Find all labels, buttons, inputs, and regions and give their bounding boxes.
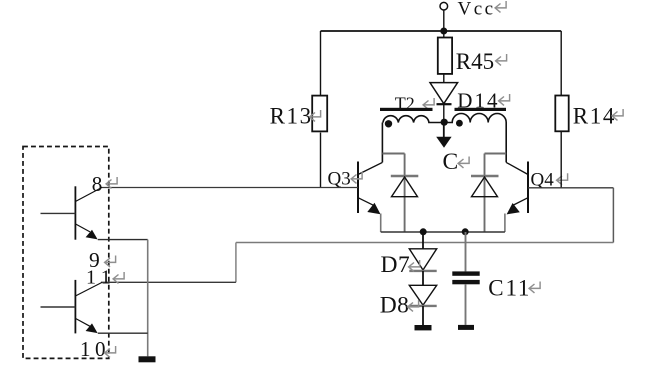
dashed enclosure box (driver IC outline) (23, 147, 109, 359)
svg-text:10: 10 (80, 337, 110, 361)
transformer T2 core bar left (380, 108, 433, 111)
paragraph mark after C (458, 157, 469, 168)
wire top rail to R13 (320, 31, 322, 96)
svg-text:11: 11 (86, 266, 116, 288)
paragraph mark after 10 (105, 346, 116, 357)
wire D7 cathode to D8 anode (422, 271, 424, 285)
junction dot bridge rail at D7 (420, 228, 427, 235)
transistor Q3 emitter arrowhead (367, 203, 380, 214)
diode D14 triangle (430, 83, 458, 104)
wire through Q3 clamp diode to bridge rail (404, 154, 406, 233)
transistor Q4 emitter arrowhead (507, 203, 520, 214)
wire bridge rail to C11 top plate (465, 232, 467, 271)
paragraph mark after D7 (409, 260, 420, 271)
paragraph mark after Q4 (557, 173, 568, 184)
wire R14 to Q4 base net (560, 132, 562, 188)
wire node 11 return horizontal (236, 242, 614, 244)
diode D7 cathode bar (409, 270, 436, 272)
clamp diode of Q3 cathode bar (391, 175, 419, 177)
clamp diode of Q4 cathode bar (471, 175, 499, 177)
wire Q4 base to right drop (528, 187, 613, 189)
wire top rail to R14 (560, 31, 562, 96)
paragraph mark after D8 (408, 300, 419, 311)
lower driver transistor emitter arrowhead (86, 323, 98, 333)
wire node 11 return riser (235, 243, 237, 283)
svg-text:Vcc: Vcc (458, 0, 496, 19)
diode D8 triangle (409, 285, 436, 305)
transistor Q3 base bar (357, 162, 359, 214)
transformer T2 phase dot right (456, 120, 463, 127)
svg-text:C: C (443, 149, 459, 175)
ground bar under D8 (415, 325, 432, 330)
svg-text:R13: R13 (270, 103, 313, 128)
upper driver transistor base stub (41, 212, 76, 214)
svg-text:C11: C11 (488, 275, 531, 300)
wire D8 cathode to ground (422, 306, 424, 325)
transformer T2 phase dot left (385, 120, 392, 127)
diode D14 cathode bar (437, 103, 452, 105)
wire D14 cathode to transformer center tap (443, 104, 445, 122)
resistor R14 body (555, 96, 568, 132)
lower driver transistor emitter lead (75, 318, 90, 326)
ground bar under mid drop (139, 356, 156, 362)
transformer T2 left winding with lead down to Q3 collector (382, 116, 443, 163)
svg-text:R14: R14 (573, 103, 616, 128)
wire bridge bottom rail (381, 231, 505, 233)
svg-text:R45: R45 (456, 49, 494, 74)
wire R13 to Q3 base net (320, 133, 322, 188)
svg-text:8: 8 (92, 172, 103, 196)
transistor Q4 collector lead (506, 162, 528, 174)
junction dot Vcc on top rail (440, 28, 447, 35)
capacitor C11 bottom plate (452, 280, 479, 284)
transformer T2 right winding with lead down to Q4 collector (444, 114, 506, 163)
transistor Q3 collector lead (358, 162, 382, 174)
wire node 8 to Q3 base (101, 187, 358, 189)
paragraph mark after Q3 (351, 172, 362, 183)
wire Q3 collector to clamp diode top (382, 153, 404, 155)
wire upper emitter to mid drop (98, 239, 148, 241)
wire lower emitter to mid drop (98, 332, 148, 334)
wire Q4 collector to clamp diode top (485, 153, 507, 155)
paragraph mark after D14 (499, 94, 510, 105)
svg-text:Q3: Q3 (328, 169, 351, 190)
transistor Q3 emitter lead (358, 198, 374, 206)
wire top rail to R45 (443, 31, 445, 38)
paragraph mark after R14 (612, 109, 623, 120)
junction dot bridge rail at C11 (462, 228, 469, 235)
wire node 11 to lower transistor collector (101, 281, 236, 283)
paragraph mark after C11 (529, 282, 540, 293)
wire Q3 emitter to bridge rail (380, 214, 382, 233)
power terminal Vcc (open circle) (440, 2, 448, 10)
upper driver transistor emitter lead (75, 224, 90, 232)
paragraph mark after T2 (423, 98, 434, 109)
transformer T2 core bar right (455, 108, 507, 111)
capacitor C11 top plate (452, 271, 479, 275)
arrow center tap to node C (443, 122, 445, 138)
wire bridge rail to D7 anode (422, 232, 424, 249)
svg-text:D7: D7 (381, 252, 411, 278)
wire Vcc terminal to top rail (443, 10, 445, 31)
wire mid drop to ground (147, 240, 149, 357)
paragraph mark after 11 (113, 272, 124, 283)
wire through Q4 clamp diode to bridge rail (484, 154, 486, 233)
svg-text:D8: D8 (380, 292, 410, 318)
wire C11 bottom plate to ground (465, 284, 467, 325)
diode D7 triangle (409, 249, 436, 270)
wire top supply rail (321, 30, 562, 32)
transistor Q4 emitter lead (514, 198, 529, 205)
transistor Q4 base bar (527, 162, 529, 214)
clamp diode of Q4 triangle (472, 177, 498, 197)
paragraph mark after 8 (106, 177, 117, 188)
lower driver transistor base bar (74, 280, 76, 334)
lower driver transistor collector lead to node 11 (75, 282, 102, 296)
upper driver transistor base bar (74, 186, 76, 239)
resistor R13 body (312, 96, 327, 132)
wire R45 to D14 anode (443, 74, 445, 83)
upper driver transistor emitter arrowhead (86, 230, 98, 240)
wire right drop down (612, 188, 614, 243)
paragraph mark after R13 (310, 110, 321, 121)
junction dot center tap (441, 119, 448, 126)
ground bar under C11 (458, 325, 474, 330)
wire Q4 emitter to bridge rail (504, 214, 506, 233)
resistor R45 body (438, 38, 452, 74)
paragraph mark after R45 (496, 54, 507, 65)
paragraph mark after 9 (105, 256, 116, 267)
diode D8 cathode bar (409, 305, 436, 307)
upper driver transistor collector lead to pin 8 (75, 187, 102, 201)
clamp diode of Q3 triangle (392, 177, 418, 197)
lower driver transistor base stub (41, 306, 76, 308)
paragraph mark after Vcc (495, 1, 506, 12)
